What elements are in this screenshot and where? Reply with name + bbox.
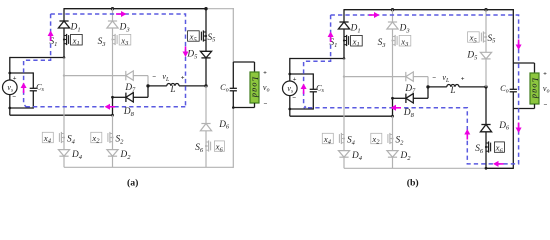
junction source tee (a) [63,56,66,59]
gate box x4 (a) [42,132,53,142]
junction load return (a) [232,106,235,109]
capacitor Co (b) [510,89,517,92]
wire D1 cathode to top rail (b) [343,9,345,22]
wire Co upper (a) [232,62,234,88]
wire source top to S1 (b) [290,58,344,60]
diode D4 (a) [58,150,69,157]
wire S3 channel (a) [112,35,114,45]
wire S5 to D5 (a) [205,41,207,51]
gate box x3 (b) [399,35,411,46]
wire S3 down to D8 node (a) [112,45,114,98]
current arrow right upper (b) [516,40,522,51]
wire S6 channel (a) [205,141,207,151]
wire S1 source down (a) [63,45,65,58]
wire D7 corner down (a) [147,76,149,86]
current arrow bottom (a) [105,104,116,110]
wire D7 to corner (a) [133,75,148,77]
junction S5-branch top (b) [484,8,487,11]
junction S5-branch top (a) [204,7,207,10]
wire D8 corner up (b) [427,87,429,98]
inductor L (a) [167,83,179,85]
gate box x5 (b) [468,32,480,42]
wire bottom return (a) [10,114,113,116]
wire Cs lower (b) [312,92,314,110]
wire S4 to D4 (b) [343,144,345,151]
current arrow top (b) [369,12,380,18]
wire vs to circle (b) [289,74,291,81]
transistor S5 (a) [201,30,207,41]
diode D6 (b) [480,125,491,132]
wire load loop bottom (a) [233,107,254,109]
wire leg-A mid (b) [343,59,345,135]
wire S2 to D2 (b) [392,144,394,151]
gate box x2 (b) [371,133,382,143]
current arrow bottom (b) [493,161,504,167]
wire D8 node to bar (a) [113,96,126,98]
wire rail to load return (b) [486,167,513,169]
svg-text:L: L [449,85,455,95]
junction leg-B top (b) [391,8,394,11]
diode D3 (a) [107,21,118,28]
junction leg-A D7 tee (b) [343,75,345,77]
current arrow top (a) [116,11,127,17]
wire top-right rail to load branch (b) [486,9,514,11]
diode D8 (b) [406,94,413,103]
wire D3 to S3 (b) [392,29,394,36]
wire S4 to D4 (a) [63,143,65,150]
gate box x2 (a) [91,132,102,142]
wire Co lower (b) [512,92,514,109]
gate box x5 (a) [188,31,200,41]
transistor S4 (a) [59,132,65,143]
wire left edge lower (b) [289,109,291,116]
gate box x1 (a) [71,34,83,45]
transistor S5 (b) [481,31,487,42]
wire D2 to rail (a) [112,156,114,167]
wire D3 to top rail (a) [112,9,114,21]
gate box x4 (b) [322,133,333,143]
svg-text:+: + [543,70,547,77]
junction bottom return leg-B (a) [111,114,114,117]
capacitor Cs (b) [310,89,317,92]
svg-text:+: + [461,75,465,82]
gate box x1 (b) [351,35,363,46]
junction vs top (b) [288,73,291,76]
wire vs to circle (a) [9,73,11,80]
current arrow S1 (a) [48,31,54,42]
wire S2 channel (a) [112,133,114,143]
junction D8 anode node (a) [111,96,114,99]
wire D1 to S1 (b) [343,29,345,36]
svg-text:−: − [12,94,16,101]
diode D2 (b) [387,151,398,158]
wire D4 to rail (a) [63,156,65,167]
wire leg-A to D7 (b) [344,76,406,78]
wire S3 channel (b) [392,36,394,46]
current arrow right (a) [183,47,189,58]
gate box x6 (a) [214,141,224,151]
wire D3 to top rail (b) [392,10,394,22]
wire leg-A to D7 (a) [64,75,126,77]
wire S4 channel (a) [63,133,65,143]
diode D1 (b) [338,22,349,29]
junction inductor right (a) [204,84,207,87]
wire D5 to node (b) [485,59,487,87]
wire circle to loop bottom (a) [9,95,11,108]
inductor L (b) [447,84,459,86]
svg-text:+: + [293,76,297,83]
wire D6 to S6 (a) [205,131,207,141]
wire S5 channel (a) [205,31,207,41]
transistor S4 (b) [339,133,345,144]
svg-text:Load: Load [531,77,540,100]
wire D8 corner up (a) [147,86,149,97]
wire load return vertical (b) [512,109,514,169]
svg-text:−: − [263,101,267,108]
junction S6 rail (b) [485,167,488,170]
wire S5 to D5 (b) [485,42,487,52]
wire source loop top (b) [290,73,314,75]
wire S1 source down (b) [343,46,345,59]
svg-text:L: L [169,84,175,94]
svg-text:−: − [292,95,296,102]
svg-text:Load: Load [251,76,260,99]
wire inductor right lead (b) [459,86,486,88]
transistor S3 (b) [391,35,397,46]
wire load return vertical (a) [232,108,234,168]
current arrow right lower (b) [516,123,522,134]
transistor S3 (a) [111,34,117,45]
wire D6 to S6 (b) [485,132,487,142]
wire rail to load return (a) [206,166,233,168]
svg-text:+: + [263,69,267,76]
svg-text:(b): (b) [407,178,419,189]
current arrow source (b) [301,84,307,95]
wire D8 to corner (b) [413,97,428,99]
junction leg-A D7 tee (a) [63,74,65,76]
wire bottom return (b) [290,115,393,117]
source vs circle (a) [3,80,18,95]
wire bottom rail (a) [64,166,206,168]
wire S6 channel (b) [485,142,487,152]
svg-text:(a): (a) [127,178,138,189]
gate box x6 (b) [494,142,504,152]
wire Cs lower (a) [32,91,34,109]
diode D1 (a) [58,21,69,28]
current arrow S6 side (b) [464,129,470,140]
wire D1 cathode to top rail (a) [63,8,65,21]
wire S6 source to rail (a) [205,151,207,167]
current arrow mid (b) [391,105,402,111]
diode D5 (b) [480,52,491,59]
wire source loop top (a) [10,72,34,74]
current arrow S1 (b) [328,32,334,43]
diode D2 (a) [107,150,118,157]
wire left edge upper (b) [289,58,291,74]
wire top rail (b) [344,9,486,11]
wire source loop bottom (a) [10,107,34,109]
wire leg-B down to bottom (b) [392,98,394,116]
wire source top to S1 (a) [10,57,64,59]
wire D1 to S1 (a) [63,28,65,35]
load box (a) [250,72,259,103]
wire D7 corner down (b) [427,77,429,87]
wire top-right rail to load branch (a) [206,8,234,10]
transistor S1 (a) [63,34,69,45]
diode D5 (a) [200,51,211,58]
junction vs bottom (a) [8,107,11,110]
diode D7 (a) [126,71,134,80]
dashed path bottom (a) [26,106,186,108]
wire leg-A mid (a) [63,58,65,134]
wire load top stub (b) [534,63,536,73]
diode D3 (b) [387,22,398,29]
wire load top stub (a) [254,62,256,72]
junction inductor right (b) [484,85,487,88]
wire top rail (a) [64,8,206,10]
wire S1 channel (a) [63,35,65,45]
diode D6 (a) [200,124,211,131]
wire D2 to rail (b) [392,157,394,168]
wire load loop top (b) [513,62,534,64]
wire D5 to node (a) [205,58,207,86]
junction inductor left (a) [146,84,149,87]
wire D8 node to bar (b) [393,97,406,99]
svg-text:−: − [543,102,547,109]
diode D4 (b) [338,151,349,158]
svg-text:+: + [13,75,17,82]
transistor S6 (b) [485,141,491,152]
capacitor Co (a) [230,88,237,91]
wire S2 to D2 (a) [112,143,114,150]
wire load loop top (a) [233,61,254,63]
wire S1 channel (b) [343,36,345,46]
wire S3 down to D8 node (b) [392,46,394,99]
wire S4 channel (b) [343,134,345,144]
transistor S1 (b) [343,35,349,46]
wire left edge lower (a) [9,108,11,115]
dashed path left jog (b) [304,15,331,108]
load box (b) [530,73,539,104]
transistor S2 (a) [108,132,114,143]
junction bottom return leg-B (b) [391,115,394,118]
wire bottom rail (b) [344,167,486,169]
wire load-branch drop (b) [512,9,514,63]
wire left edge upper (a) [9,57,11,73]
diode D8 (a) [126,93,133,102]
wire load bottom stub (b) [534,104,536,109]
current arrow source (a) [21,83,27,94]
wire Cs upper (a) [32,72,34,88]
svg-text:−: − [432,75,436,82]
junction inductor left (b) [426,85,429,88]
wire node down to D6 (a) [205,86,207,124]
wire inductor right lead (a) [179,85,206,87]
junction D8 anode node (b) [391,97,394,100]
wire inductor left lead (b) [428,86,447,88]
transistor S2 (b) [388,133,394,144]
gate box x3 (a) [119,34,131,45]
junction leg-B top (a) [111,7,114,10]
dashed path top (b) [304,15,519,164]
wire circle to loop bottom (b) [289,96,291,109]
wire D8 to corner (a) [133,96,148,98]
dashed path top (a) [51,14,186,107]
wire Cs upper (b) [312,73,314,89]
transistor S6 (a) [205,140,211,151]
wire S6 source to rail (b) [485,152,487,168]
source vs circle (b) [283,81,298,96]
svg-text:−: − [152,74,156,81]
junction vs top (a) [8,72,11,75]
diode D7 (b) [406,72,414,81]
wire source loop bottom (b) [290,108,314,110]
wire Co lower (a) [232,91,234,108]
wire leg-B lower (a) [112,115,114,133]
junction source tee (b) [343,57,346,60]
wire D3 to S3 (a) [112,28,114,35]
dashed path left jog (a) [24,14,51,107]
capacitor Cs (a) [30,88,37,91]
wire S5 drain (a) [205,9,207,31]
wire load loop bottom (b) [513,108,534,110]
wire load bottom stub (a) [254,103,256,108]
wire D4 to rail (b) [343,157,345,168]
wire leg-B lower (b) [392,116,394,134]
svg-text:+: + [181,74,185,81]
wire leg-B down to bottom (a) [112,97,114,115]
wire D7 to corner (b) [413,76,428,78]
wire S5 drain (b) [485,10,487,32]
junction vs bottom (b) [288,108,291,111]
wire Co upper (b) [512,63,514,89]
wire load-branch drop (a) [232,8,234,62]
wire inductor left lead (a) [148,85,167,87]
wire S2 channel (b) [392,134,394,144]
wire node down to D6 (b) [485,87,487,125]
wire S5 channel (b) [485,32,487,42]
